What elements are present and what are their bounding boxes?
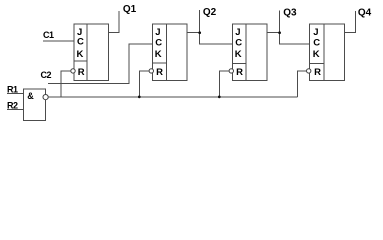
wire Q4 output (345, 11, 356, 33)
flip-flop U4 box (310, 24, 345, 81)
svg-text:R1: R1 (7, 85, 18, 95)
junction dot Q3 node (278, 31, 281, 34)
wire Q3 to U4 clock (280, 33, 310, 45)
flip-flop U3 box (232, 24, 267, 81)
svg-text:C: C (77, 36, 84, 47)
svg-text:Q2: Q2 (203, 7, 217, 18)
svg-text:K: K (313, 49, 320, 60)
flip-flop U1 K underline (74, 60, 87, 62)
flip-flop U3 K underline (232, 62, 246, 64)
junction dot reset rail at U2 riser (138, 96, 141, 99)
NAND gate G1 box (23, 89, 45, 121)
wire Q3 output (267, 11, 280, 33)
flip-flop U2 reset bubble (149, 69, 153, 73)
svg-text:C: C (155, 38, 162, 49)
wire Q2 to U3 clock (200, 33, 233, 45)
flip-flop U3 reset bubble (229, 69, 233, 73)
flip-flop U1 reset bubble (71, 69, 75, 73)
svg-text:&: & (27, 91, 34, 101)
svg-text:R: R (156, 67, 163, 78)
junction dot Q2 node (198, 31, 201, 34)
flip-flop U3 divider (245, 24, 247, 81)
svg-text:Q4: Q4 (358, 8, 372, 19)
svg-text:R: R (78, 67, 85, 78)
flip-flop U2 K underline (152, 62, 166, 64)
svg-text:Q3: Q3 (283, 7, 297, 18)
svg-text:R: R (236, 67, 243, 78)
svg-text:C1: C1 (43, 30, 54, 40)
wire reset riser to U4 R (297, 71, 306, 97)
svg-text:K: K (235, 49, 242, 60)
svg-text:J: J (155, 27, 160, 38)
wire reset riser to U3 R (219, 71, 229, 97)
wire C2 to U2 clock (48, 44, 152, 83)
svg-text:Q1: Q1 (123, 4, 137, 15)
wire R1 input (7, 93, 23, 95)
svg-text:K: K (77, 49, 84, 60)
wire R2 input (7, 109, 23, 111)
svg-text:J: J (235, 27, 240, 38)
flip-flop U1 box (74, 24, 109, 81)
flip-flop U4 divider (323, 24, 325, 81)
junction dot reset rail at U3 riser (218, 96, 221, 99)
wire reset rail (48, 96, 297, 98)
svg-text:R2: R2 (7, 100, 18, 110)
wire reset riser to U2 R (139, 71, 149, 97)
flip-flop U2 box (152, 24, 187, 81)
svg-text:K: K (155, 49, 162, 60)
wire Q2 output (187, 10, 200, 33)
svg-text:R: R (314, 67, 321, 78)
wire Q1 output (109, 11, 119, 33)
svg-text:C2: C2 (41, 70, 52, 80)
wire reset riser to U1 R (61, 71, 71, 97)
svg-text:C: C (235, 38, 242, 49)
flip-flop U4 reset bubble (307, 69, 311, 73)
wire C1 input (43, 40, 74, 42)
NAND gate G1 output bubble (43, 95, 48, 100)
svg-text:C: C (313, 38, 320, 49)
flip-flop U1 divider (86, 24, 88, 81)
flip-flop U4 K underline (310, 63, 324, 65)
svg-text:J: J (313, 27, 318, 38)
flip-flop U2 divider (166, 24, 168, 81)
